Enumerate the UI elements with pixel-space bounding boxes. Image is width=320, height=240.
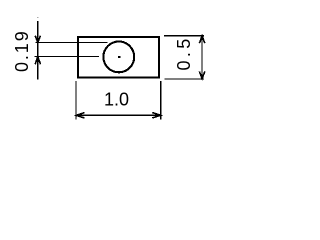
dim 0.5: extension line at rect top <box>164 35 204 37</box>
dim 1.0: extension line at rect right <box>160 81 162 119</box>
dim 0.19: extension line at circle center <box>35 56 100 58</box>
dim 0.5: dimension line (vertical) <box>201 36 203 79</box>
dim 0.19: faint overshoot dot <box>37 17 38 18</box>
svg-text:0.19: 0.19 <box>12 29 32 72</box>
dim 1.0: dimension line (horizontal) <box>76 114 161 116</box>
svg-text:1.0: 1.0 <box>104 90 129 110</box>
circle (hole, r=0.19) <box>103 42 134 73</box>
dim 0.19: dimension line (vertical) <box>37 21 39 80</box>
dim 0.19: lower arrowhead (points up) <box>35 57 40 65</box>
rectangle outline (part body 1.0 x 0.5) <box>78 37 159 78</box>
dim 0.19: upper arrowhead (points down) <box>35 36 40 43</box>
dim 0.5: extension line at rect bottom <box>165 78 205 80</box>
dim 1.0: right arrowhead (points right) <box>152 113 160 118</box>
dim 0.19: extension line at circle top <box>35 42 107 44</box>
dim 0.5: top arrowhead (points up) <box>199 36 204 43</box>
svg-text:0.5: 0.5 <box>174 35 194 70</box>
circle center mark <box>118 56 121 58</box>
dim 1.0: left arrowhead (points left) <box>76 113 84 118</box>
dim 1.0: extension line at rect left <box>75 81 77 119</box>
dim 0.5: bottom arrowhead (points down) <box>199 71 204 78</box>
